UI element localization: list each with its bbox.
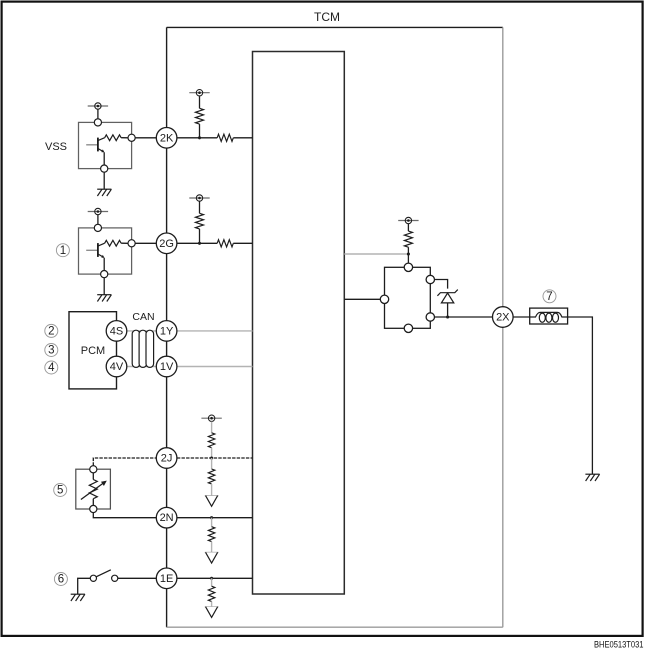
connector 4S — [106, 321, 127, 342]
TCM internal unit box — [253, 52, 345, 595]
wire power to pull-up resistor (2G) — [199, 201, 201, 213]
junction driver node — [407, 252, 410, 255]
terminal bottom (5) — [90, 505, 97, 512]
wire zener anode to output line — [447, 303, 449, 317]
wire pull-up resistor to 2G node — [199, 229, 201, 243]
resistor series (2G line) — [217, 240, 233, 247]
transistor (sensor 1) collector — [98, 243, 105, 246]
wire solenoid to ground — [568, 317, 593, 474]
terminal output (sensor 1) — [128, 240, 135, 247]
power supply B+ (2J pull-up) — [201, 415, 221, 421]
wire power to driver resistor — [407, 224, 409, 231]
TCM box top edge — [167, 26, 503, 28]
wire 2G to series resistor — [177, 242, 217, 244]
transistor (sensor 1) base lead — [86, 249, 98, 251]
wire pull-up resistor to 2J node — [211, 448, 213, 458]
resistor pull-up (2G) — [196, 213, 204, 229]
ground (switch 6) — [71, 594, 85, 601]
svg-text:2G: 2G — [159, 238, 174, 250]
connector 2J — [156, 448, 177, 469]
wire resistor to driver node — [407, 247, 409, 263]
wire 1V to TCM unit — [177, 366, 252, 368]
resistor driver pull-up — [404, 231, 412, 247]
resistor 2J to signal ground — [211, 458, 213, 469]
wire 1E to TCM unit — [177, 577, 253, 579]
resistor collector (sensor 1) — [105, 240, 121, 246]
wire power to pull-up resistor (2J) — [211, 422, 213, 433]
resistor 2N to signal ground — [211, 518, 213, 527]
signal ground triangle (1E) — [205, 606, 219, 608]
svg-text:CAN: CAN — [132, 311, 154, 323]
circled number 3 — [45, 344, 58, 357]
terminal top (5) — [90, 466, 97, 473]
TCM box left edge — [166, 27, 168, 627]
wire TCM unit to driver input — [344, 298, 380, 300]
sensor case box (VSS) — [79, 122, 132, 168]
connector 2K — [156, 128, 177, 149]
junction 1E node — [210, 577, 213, 580]
power supply B+ (driver) — [398, 217, 418, 223]
svg-text:VSS: VSS — [45, 141, 67, 153]
solenoid case box (7) — [530, 308, 568, 324]
wire resistor to signal-ground triangle (2N) — [211, 542, 213, 553]
svg-text:1Y: 1Y — [160, 325, 174, 337]
power supply B+ (2G pull-up) — [189, 195, 209, 201]
svg-text:3: 3 — [48, 345, 54, 357]
ground (solenoid) — [585, 474, 599, 481]
junction 2G node — [198, 242, 201, 245]
wire bottom terminal to ground (VSS) — [103, 172, 105, 189]
svg-text:1: 1 — [60, 245, 66, 257]
resistor collector (VSS) — [105, 135, 121, 141]
driver block outline — [385, 267, 431, 328]
wire power to pull-up resistor (2K) — [199, 96, 201, 108]
power supply B+ (VSS) — [88, 103, 108, 109]
transistor (VSS) emitter with arrow — [98, 149, 103, 152]
transistor (sensor 1) base bar — [97, 243, 99, 257]
wire sensor 5 top to 2J (dashed) — [93, 458, 156, 466]
connector 2G — [156, 233, 177, 254]
switch pole terminal — [90, 575, 96, 581]
connector 1V — [156, 356, 177, 377]
circled number 1 — [56, 244, 69, 257]
junction zener anode — [446, 315, 449, 318]
wire bottom terminal to ground (sensor 1) — [103, 278, 105, 295]
svg-text:6: 6 — [58, 574, 64, 586]
terminal output (VSS) — [128, 134, 135, 141]
wire pull-up resistor to 2K node — [199, 124, 201, 138]
connector 1Y — [156, 321, 177, 342]
svg-text:BHE0513T031: BHE0513T031 — [594, 639, 644, 650]
terminal bottom (VSS) — [101, 165, 108, 172]
power supply B+ (sensor 1) — [88, 208, 108, 214]
connector 2X — [493, 307, 514, 328]
TCM box bottom edge — [167, 626, 503, 628]
wire 2N to TCM unit — [177, 517, 253, 519]
svg-text:4V: 4V — [110, 361, 124, 373]
junction 2J node — [210, 456, 213, 459]
svg-text:2N: 2N — [160, 512, 174, 524]
resistor series (2K line) — [217, 134, 233, 141]
driver terminal top — [404, 263, 412, 271]
terminal top (VSS) — [94, 119, 101, 126]
resistor 1E to signal ground — [211, 578, 213, 586]
wire upper-right terminal to zener — [435, 280, 448, 289]
ground (sensor 1) — [97, 295, 111, 302]
wire series resistor to TCM unit (2G) — [233, 242, 252, 244]
svg-text:1E: 1E — [160, 573, 173, 585]
svg-text:2X: 2X — [496, 312, 510, 324]
wire sensor 5 bottom to 2N — [93, 513, 156, 518]
wire 2K to series resistor — [177, 137, 217, 139]
transistor (VSS) collector — [98, 138, 105, 141]
wire switch to 1E — [118, 577, 157, 579]
wire resistor to signal-ground triangle (1E) — [211, 602, 213, 607]
terminal top (sensor 1) — [94, 224, 101, 231]
circled number 6 — [54, 573, 67, 586]
power supply B+ (2K pull-up) — [189, 90, 209, 96]
TCM box right edge — [502, 27, 504, 627]
svg-text:4S: 4S — [110, 325, 123, 337]
svg-text:2K: 2K — [160, 132, 174, 144]
solenoid coil (7) — [530, 312, 568, 317]
wire ground to switch — [78, 578, 91, 594]
svg-text:4: 4 — [48, 362, 55, 374]
twisted pair loop 3 — [146, 330, 154, 367]
arrow of variable resistor (5) — [81, 484, 103, 500]
transistor (sensor 1) emitter with arrow — [98, 254, 103, 257]
wire CAN low 4V to 1V — [127, 366, 157, 368]
zener diode D1 triangle — [441, 293, 453, 303]
circled number 4 — [45, 361, 58, 374]
wire power to VSS sensor case — [97, 109, 99, 119]
wire 2X to solenoid — [513, 316, 530, 318]
wire series resistor to TCM unit (2K) — [233, 137, 252, 139]
sensor case box (5) — [76, 469, 111, 509]
twisted pair loop 2 — [139, 330, 147, 367]
driver terminal lower right — [426, 313, 434, 321]
PCM box — [69, 312, 117, 389]
junction 2N node — [210, 516, 213, 519]
signal ground triangle (2N) — [205, 551, 219, 553]
junction 2K node — [198, 136, 201, 139]
transistor (VSS) base lead — [86, 144, 98, 146]
wire emitter to bottom terminal (VSS) — [103, 152, 105, 165]
wire resistor to output terminal (VSS) — [121, 137, 128, 139]
signal ground triangle (2J) — [205, 495, 219, 497]
circled number 5 — [54, 484, 67, 497]
resistor pull-up (2K) — [196, 108, 204, 124]
circled number 2 — [45, 324, 58, 337]
wire power to sensor 1 sensor case — [97, 215, 99, 225]
wire 1Y to TCM unit — [177, 330, 252, 332]
wire sensor 1 output to 2G — [135, 242, 156, 244]
wire driver output to 2X — [435, 316, 493, 318]
svg-text:2: 2 — [48, 326, 54, 338]
wire emitter to bottom terminal (sensor 1) — [103, 258, 105, 271]
ground (VSS) — [97, 189, 111, 196]
svg-text:7: 7 — [546, 291, 552, 303]
transistor (VSS) base bar — [97, 138, 99, 152]
terminal bottom (sensor 1) — [101, 271, 108, 278]
wire resistor to signal-ground triangle (2J) — [211, 484, 213, 496]
driver terminal upper right — [426, 275, 434, 283]
svg-text:PCM: PCM — [81, 345, 105, 357]
driver terminal bottom — [404, 324, 412, 332]
twisted pair loop 1 — [132, 330, 140, 367]
wire CAN high 4S to 1Y — [127, 330, 157, 332]
svg-text:1V: 1V — [160, 361, 174, 373]
connector 4V — [106, 356, 127, 377]
resistor pull-up (2J) — [208, 433, 214, 448]
circled number 7 — [543, 290, 556, 303]
switch blade — [96, 570, 110, 577]
sensor case box (sensor 1) — [79, 228, 132, 274]
svg-text:TCM: TCM — [314, 10, 340, 24]
wire VSS output to 2K — [135, 137, 156, 139]
driver terminal left — [380, 295, 388, 303]
wire 2J to TCM unit (dashed) — [177, 457, 253, 459]
variable resistor (5) — [92, 473, 94, 480]
zener diode D1 cathode bar — [437, 290, 457, 296]
connector 1E — [156, 568, 177, 589]
switch throw terminal — [112, 575, 118, 581]
connector 2N — [156, 507, 177, 528]
wire TCM unit to driver pull-up node (gray) — [344, 253, 408, 255]
svg-text:2J: 2J — [161, 453, 173, 465]
wire resistor to output terminal (sensor 1) — [121, 242, 128, 244]
svg-text:5: 5 — [57, 485, 63, 497]
